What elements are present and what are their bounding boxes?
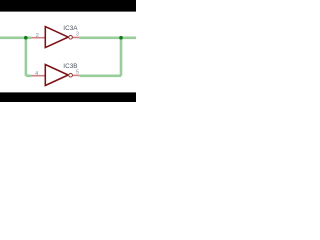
- svg-text:5: 5: [76, 69, 79, 75]
- svg-text:3: 3: [76, 32, 79, 38]
- wire: output net of gate B: [79, 75, 121, 78]
- inverter IC3B: triangle body: [45, 65, 68, 86]
- wire: output net of gate A to right edge: [79, 36, 136, 39]
- pin 3: output pin of IC3A: [73, 37, 80, 39]
- wire: horizontal stub to gate B input: [26, 75, 31, 78]
- wire: vertical tie between outputs: [120, 38, 123, 76]
- black bar at bottom of screenshot: [0, 92, 136, 102]
- pin 5: output pin of IC3B: [73, 74, 80, 76]
- svg-text:2: 2: [36, 33, 39, 39]
- pin 2: input pin of IC3A: [31, 37, 45, 39]
- wire: input net from left edge to gate A input: [0, 36, 31, 39]
- junction: output net junction: [119, 36, 123, 40]
- wire: vertical branch down to gate B input: [25, 38, 28, 76]
- inverter IC3B: output bubble: [69, 73, 73, 77]
- black bar at top of screenshot: [0, 0, 136, 12]
- pin 4: input pin of IC3B: [31, 75, 45, 77]
- svg-text:4: 4: [35, 71, 38, 77]
- inverter IC3A: triangle body: [45, 27, 68, 48]
- junction: input net junction: [24, 36, 28, 40]
- inverter IC3A: output bubble: [69, 36, 73, 40]
